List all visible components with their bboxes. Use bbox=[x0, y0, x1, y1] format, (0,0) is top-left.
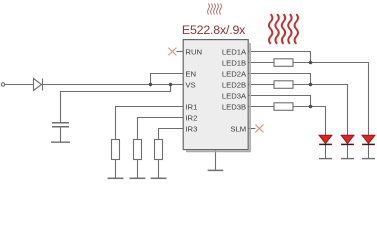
svg-text:E522.8x/.9x: E522.8x/.9x bbox=[182, 23, 246, 37]
svg-text:LED1A: LED1A bbox=[222, 47, 247, 56]
svg-text:LED1B: LED1B bbox=[222, 58, 246, 67]
svg-text:IR2: IR2 bbox=[185, 113, 197, 122]
svg-text:RUN: RUN bbox=[185, 47, 202, 56]
svg-text:IR1: IR1 bbox=[185, 102, 197, 111]
svg-text:VS: VS bbox=[185, 80, 195, 89]
svg-text:LED3A: LED3A bbox=[222, 91, 247, 100]
svg-text:IR3: IR3 bbox=[185, 124, 197, 133]
svg-text:LED2A: LED2A bbox=[222, 69, 247, 78]
svg-text:EN: EN bbox=[185, 69, 196, 78]
svg-text:LED2B: LED2B bbox=[222, 80, 246, 89]
svg-text:SLM: SLM bbox=[230, 124, 246, 133]
svg-text:LED3B: LED3B bbox=[222, 102, 246, 111]
